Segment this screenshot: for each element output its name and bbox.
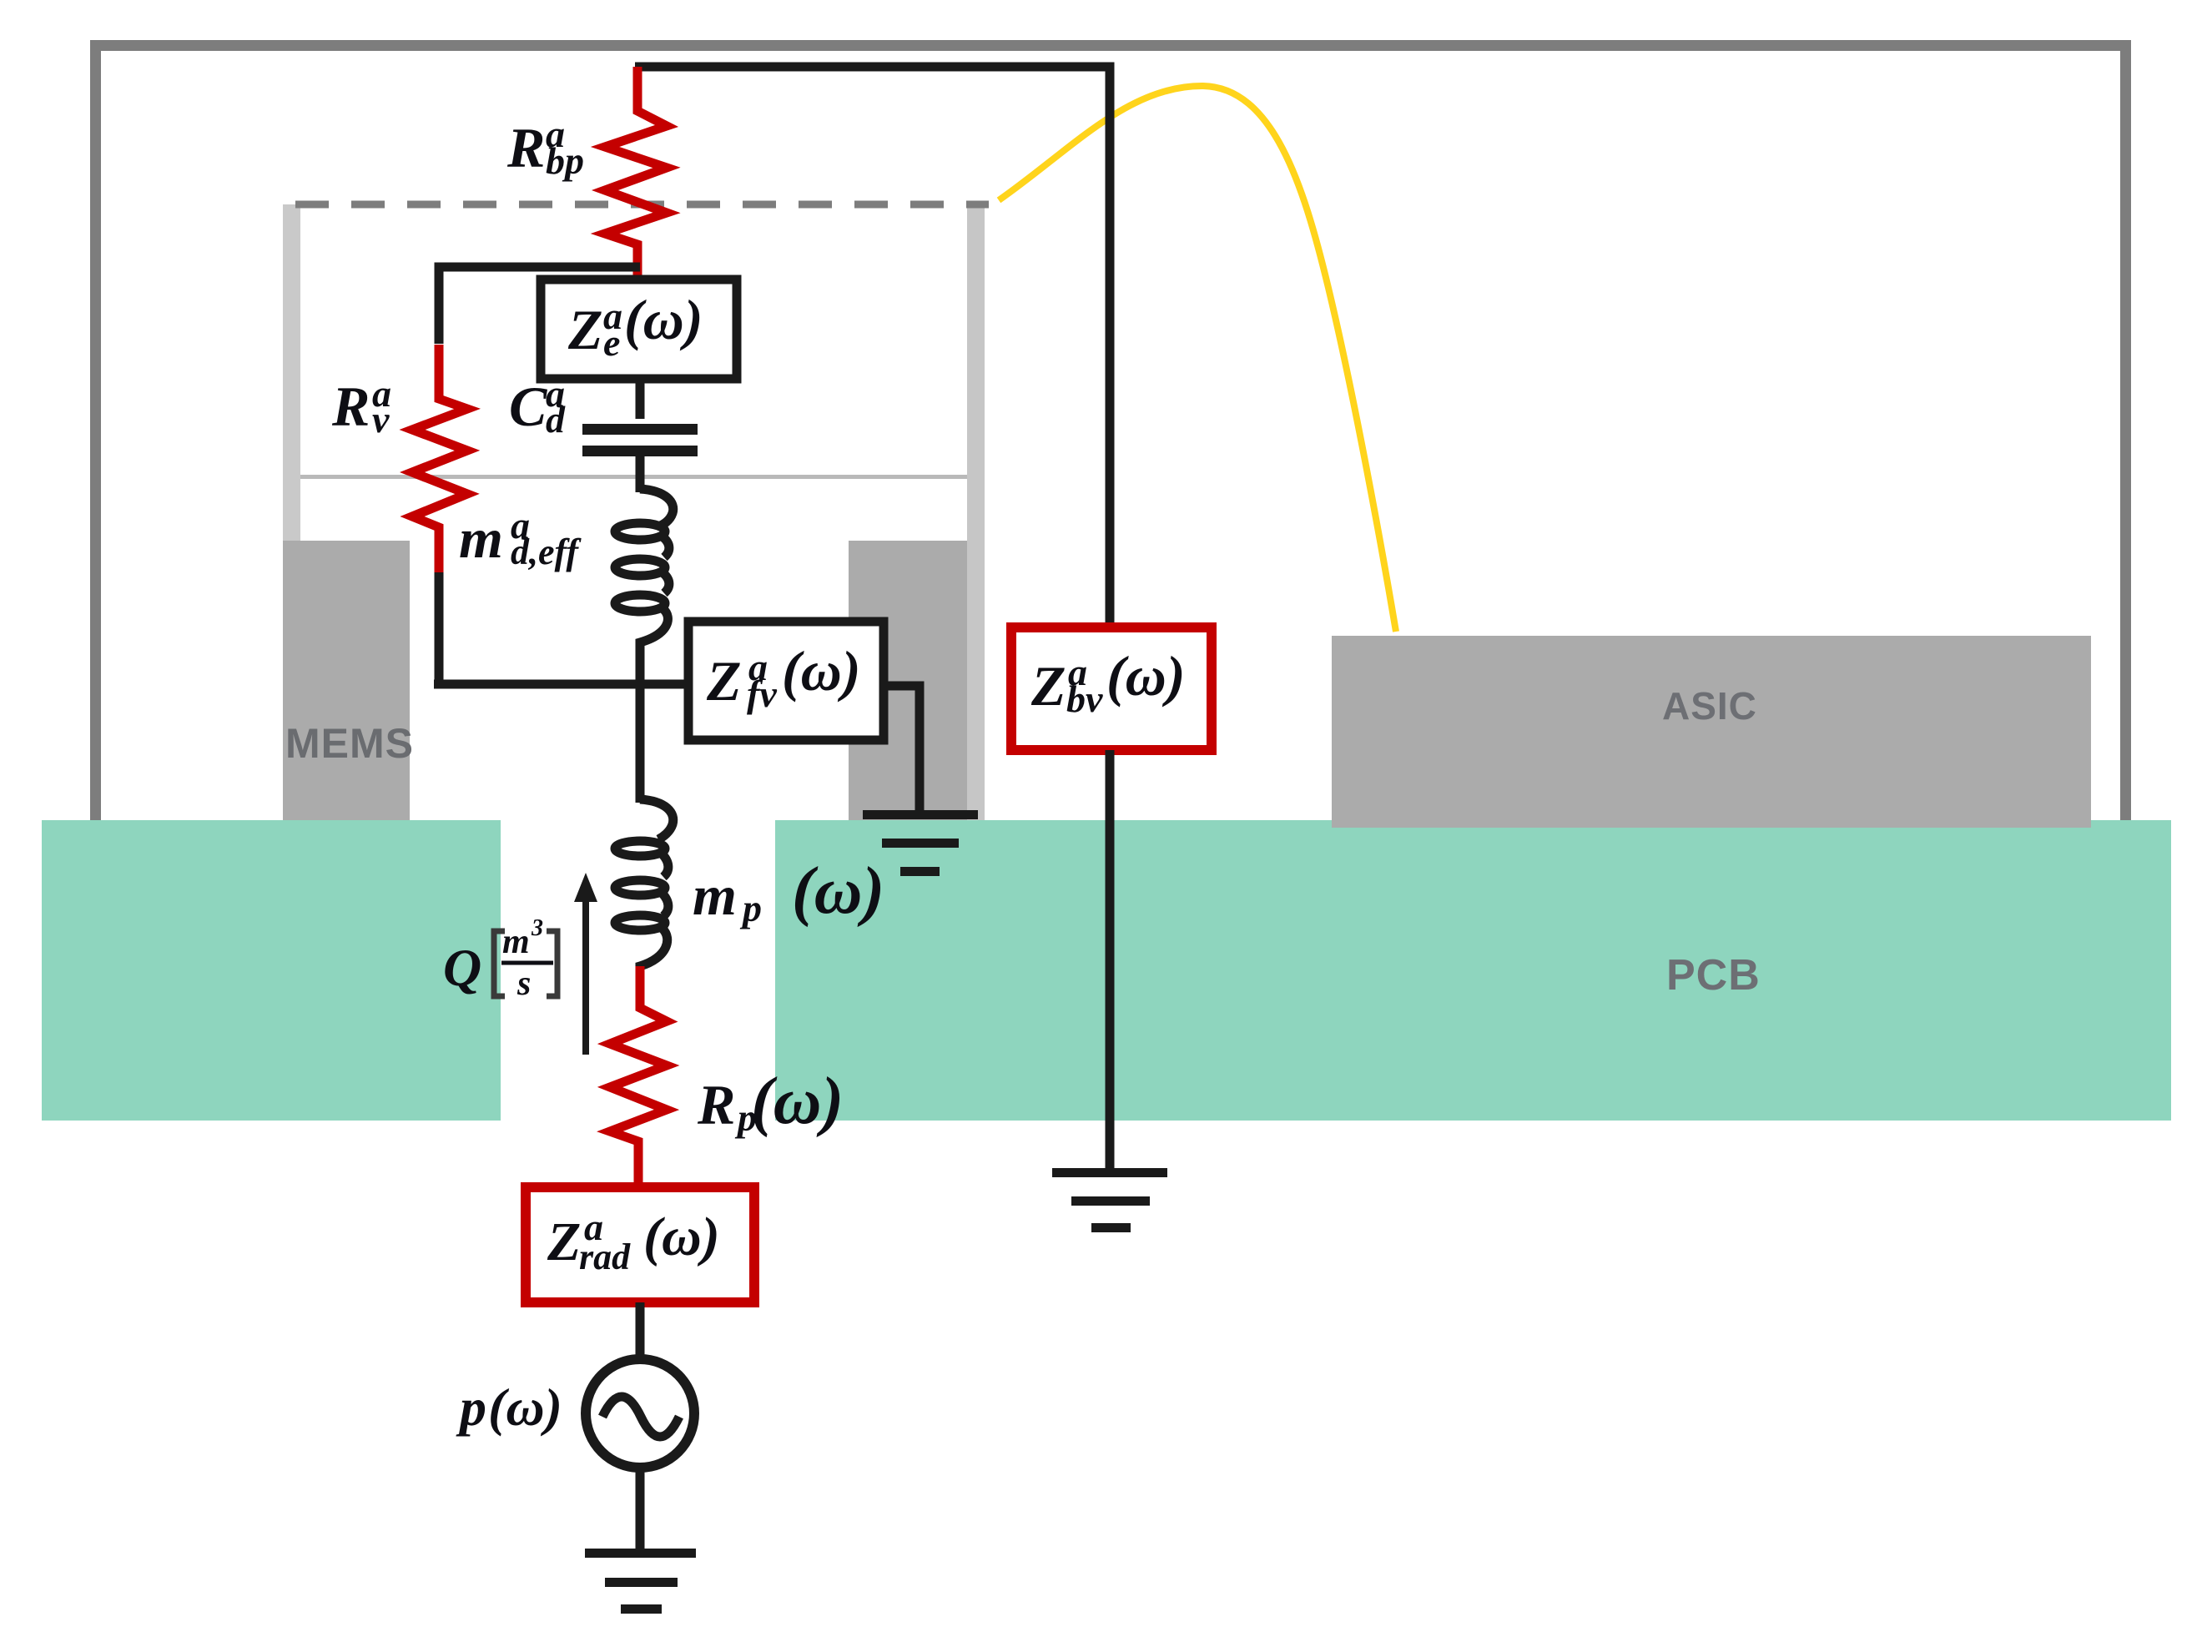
package lid frame [90,40,2131,820]
ground MEMS (under Z_fv) [863,810,978,876]
MEMS die right sidewall [849,541,984,820]
MEMS die left sidewall [283,541,410,820]
package lid dashed port line [295,201,989,209]
impedance box Z_bv [1011,627,1212,750]
svg-text:(ω): (ω) [624,288,703,351]
AC source p(w) [586,1359,694,1468]
MEMS backplate right wall [967,204,985,820]
flow arrow Q [574,873,597,1055]
svg-text:m: m [502,923,530,961]
svg-text:bp: bp [546,139,584,182]
svg-text:Z: Z [1030,654,1066,718]
svg-text:Z: Z [567,298,603,361]
label m_d,eff [459,504,582,572]
svg-text:(ω): (ω) [751,1065,844,1138]
label m_p [693,854,884,929]
svg-text:fv: fv [747,672,777,715]
svg-text:(ω): (ω) [488,1378,562,1437]
svg-text:m: m [693,864,737,927]
wire Z_e to capacitor [636,379,645,419]
svg-text:C: C [509,375,547,438]
ASIC die [1332,636,2091,828]
svg-text:Z: Z [547,1211,581,1272]
capacitor C_d [582,424,698,456]
svg-text:d: d [546,398,566,441]
svg-text:(ω): (ω) [643,1206,720,1267]
svg-text:(ω): (ω) [1106,644,1185,708]
svg-text:R: R [331,375,370,438]
svg-text:(ω): (ω) [792,854,884,928]
label Z_rad [547,1206,720,1277]
label Q [m3/s] [443,915,557,1003]
wire top: R_bp top to Z_bv branch [635,67,1110,627]
MEMS backplate left wall [283,204,300,541]
impedance box Z_rad [526,1187,754,1302]
resistor R_v [412,345,467,574]
svg-text:R: R [506,116,545,179]
svg-text:d,eff: d,eff [511,531,582,572]
wire Z_bv to ground [1106,750,1115,1170]
wire capacitor to inductor [636,456,645,492]
label R_v [331,372,391,441]
svg-text:p: p [456,1378,486,1437]
MEMS membrane [300,475,967,479]
svg-text:s: s [516,965,531,1003]
inductor m_d,eff [615,489,673,647]
svg-text:PCB: PCB [1666,951,1761,1000]
wire R_bp bottom to R_v branch [439,267,640,344]
svg-text:R: R [697,1073,735,1136]
label C_d [509,372,566,441]
impedance box Z_e [541,280,737,379]
wire source to ground [636,1468,645,1552]
PCB left block [42,820,501,1121]
ground Z_bv [1052,1168,1167,1232]
svg-text:Q: Q [443,938,481,997]
wire inductor to m_p junction [636,645,645,803]
svg-text:(ω): (ω) [782,639,860,703]
PCB right block [775,820,2171,1121]
svg-text:MEMS: MEMS [285,720,414,767]
svg-text:p: p [739,887,762,929]
wire Z_fv right to ground [884,686,920,814]
resistor R_bp [605,67,667,280]
label R_bp [506,113,584,182]
impedance box Z_fv [688,622,884,740]
svg-text:rad: rad [579,1236,631,1277]
svg-text:v: v [372,398,390,441]
inductor m_p [615,799,673,970]
svg-text:ASIC: ASIC [1662,684,1757,728]
svg-text:m: m [459,506,503,570]
wire R_v bottom to junction [434,572,688,684]
ground bottom [585,1549,696,1614]
resistor R_p [610,966,667,1187]
label Z_fv [706,639,860,715]
svg-text:bv: bv [1066,677,1103,720]
svg-text:3: 3 [531,915,543,941]
bond wire [999,86,1396,632]
wire Z_rad to source [636,1302,645,1360]
label p(w) [456,1378,562,1437]
svg-text:Z: Z [706,649,742,713]
label Z_bv [1030,644,1185,720]
label Z_e [567,288,703,364]
svg-text:e: e [603,321,620,364]
label R_p [697,1065,844,1139]
